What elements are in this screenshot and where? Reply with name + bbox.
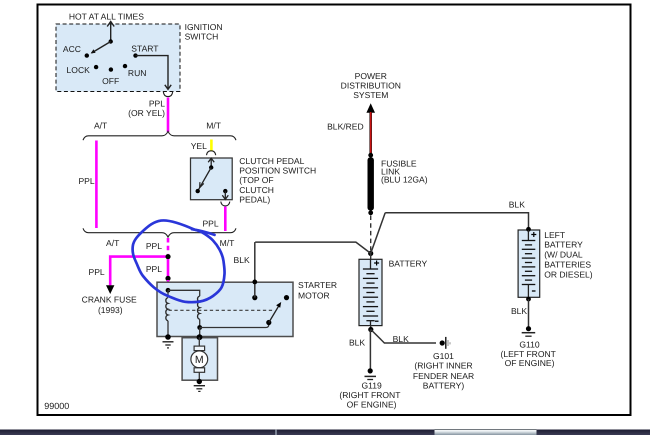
svg-text:CLUTCH: CLUTCH [239, 185, 274, 195]
svg-text:PEDAL): PEDAL) [239, 195, 270, 205]
wire PPL dashed below merge [167, 238, 170, 254]
ground G119 [368, 368, 373, 373]
svg-text:STARTER: STARTER [298, 280, 337, 290]
svg-text:OR DIESEL): OR DIESEL) [544, 269, 593, 279]
node coil2 bottom [197, 325, 202, 330]
connector arc ignition output [163, 92, 172, 97]
ground G101 chassis [440, 340, 445, 345]
left battery plates [522, 241, 536, 285]
svg-text:BATTERY): BATTERY) [423, 381, 465, 391]
svg-text:PPL: PPL [89, 267, 105, 277]
wire PPL crank fuse branch [110, 257, 165, 286]
svg-text:PPL: PPL [146, 264, 162, 274]
clutch pedal position switch U1 [191, 158, 233, 200]
svg-text:BATTERIES: BATTERIES [544, 259, 591, 269]
node battery positive junction [368, 251, 373, 256]
contact RUN [123, 64, 127, 68]
node left battery negative [526, 297, 531, 302]
dashed mechanical link [169, 309, 273, 311]
wire BLK junction to left battery [371, 213, 386, 254]
svg-text:(W/ DUAL: (W/ DUAL [544, 250, 583, 260]
node junction above starter [165, 276, 170, 281]
svg-text:SWITCH: SWITCH [185, 31, 219, 41]
svg-text:PPL: PPL [149, 98, 165, 108]
battery minus terminal [375, 320, 379, 322]
node motor feed [197, 334, 203, 340]
arrow to power distribution [366, 103, 375, 113]
wire BLK battery to G101 [371, 330, 436, 344]
svg-text:POWER: POWER [355, 71, 387, 81]
svg-text:PPL: PPL [78, 176, 94, 186]
wire BLK to G110 [528, 299, 530, 327]
svg-text:(BLU 12GA): (BLU 12GA) [381, 175, 428, 185]
node fusible link top [368, 153, 373, 158]
svg-text:G101: G101 [433, 351, 454, 361]
wire dashed to battery junction [370, 216, 372, 251]
node left battery positive [526, 227, 531, 232]
wire PPL to starter [167, 259, 170, 276]
svg-text:BATTERY: BATTERY [544, 240, 583, 250]
coil L2 pull-in winding [198, 296, 200, 319]
contact ACC [85, 53, 89, 57]
contact LOCK [94, 65, 98, 69]
clutch switch blade [198, 168, 212, 192]
brace split A/T M/T [83, 131, 236, 140]
svg-text:RUN: RUN [128, 68, 147, 78]
arrow to crank fuse [106, 285, 114, 294]
svg-text:PPL: PPL [202, 218, 218, 228]
svg-text:A/T: A/T [106, 238, 120, 248]
battery BT2 left battery [518, 230, 540, 297]
node PPL terminal inside starter [166, 288, 171, 293]
svg-text:POSITION SWITCH: POSITION SWITCH [239, 166, 316, 176]
wire PPL from ignition [167, 98, 170, 133]
battery plus terminal [374, 261, 379, 266]
brace merge A/T M/T [83, 228, 236, 237]
svg-text:ACC: ACC [63, 44, 81, 54]
node motor ground pin [197, 379, 202, 384]
wire BLK junction to starter [255, 242, 371, 253]
svg-text:M: M [195, 354, 204, 366]
svg-text:G119: G119 [361, 381, 382, 391]
ground motor [194, 385, 205, 387]
node clutch lower contact [196, 189, 200, 193]
wire link to both coils [168, 290, 200, 296]
svg-text:BLK/RED: BLK/RED [327, 121, 364, 131]
svg-text:FENDER NEAR: FENDER NEAR [413, 371, 474, 381]
svg-text:HOT AT ALL TIMES: HOT AT ALL TIMES [69, 11, 144, 21]
wire BLK battery to G119 [369, 330, 371, 370]
wire PPL into starter box [167, 280, 170, 283]
left battery plus terminal [531, 232, 536, 237]
ignition switch box [56, 24, 180, 92]
svg-text:(1993): (1993) [98, 305, 123, 315]
svg-text:(RIGHT INNER: (RIGHT INNER [414, 361, 472, 371]
fusible link F1 [368, 157, 374, 210]
node solenoid fixed contact [284, 295, 289, 300]
wire coil2 to contact [200, 323, 269, 328]
svg-text:LEFT: LEFT [544, 230, 566, 240]
motor housing box [182, 338, 217, 381]
ground G110 [526, 326, 531, 331]
bottom toolbar strip [0, 430, 650, 435]
node solenoid moving contact [266, 320, 271, 325]
svg-text:M/T: M/T [206, 120, 221, 130]
node clutch upper contact [209, 165, 213, 169]
wire YEL M/T branch [210, 140, 213, 151]
node starter coil1 ground pin [165, 334, 171, 340]
svg-text:START: START [131, 43, 159, 53]
connector arc clutch switch input [207, 151, 216, 155]
node clutch output contact [223, 189, 227, 193]
battery plates [363, 269, 378, 321]
solenoid switch arm [269, 306, 279, 323]
wire PPL from clutch switch [224, 207, 227, 231]
clutch switch output arrow [224, 191, 226, 199]
annotation blue scribble [192, 229, 215, 235]
contact OFF [109, 67, 113, 71]
left battery minus terminal [532, 290, 536, 292]
wire pivot to ACC with arrow [92, 42, 111, 54]
contact START [133, 53, 137, 57]
clutch switch input arrow [210, 159, 212, 168]
svg-text:IGNITION: IGNITION [185, 22, 223, 32]
svg-text:BLK: BLK [234, 255, 250, 265]
svg-text:BLK: BLK [509, 199, 525, 209]
svg-text:M/T: M/T [220, 238, 235, 248]
ground starter coil [163, 341, 174, 343]
svg-text:LOCK: LOCK [67, 65, 91, 75]
svg-text:BLK: BLK [349, 338, 365, 348]
battery BT1 [370, 253, 372, 259]
wire coil2 down to motor [199, 328, 201, 338]
svg-text:(OR YEL): (OR YEL) [128, 108, 165, 118]
coil L1 hold-in winding [167, 290, 169, 297]
wire ignition feed arrow up [110, 22, 112, 42]
motor M1 [198, 337, 200, 346]
node junction crank fuse tap [165, 254, 170, 259]
svg-text:99000: 99000 [44, 401, 69, 411]
svg-text:MOTOR: MOTOR [298, 291, 330, 301]
svg-text:CLUTCH PEDAL: CLUTCH PEDAL [239, 156, 304, 166]
svg-text:A/T: A/T [94, 120, 108, 130]
wire BLK into starter [254, 242, 256, 298]
svg-text:SYSTEM: SYSTEM [353, 90, 388, 100]
starter motor box [157, 282, 293, 336]
svg-text:BATTERY: BATTERY [389, 258, 428, 268]
node battery negative [370, 326, 372, 330]
node BLK on starter box edge [252, 280, 257, 285]
svg-text:BLK: BLK [511, 306, 527, 316]
wire PPL A/T branch [95, 141, 98, 229]
svg-text:YEL: YEL [191, 141, 207, 151]
wire BLK/RED [369, 112, 372, 155]
svg-text:PPL: PPL [146, 241, 162, 251]
svg-text:BLK: BLK [393, 334, 409, 344]
svg-text:OF ENGINE): OF ENGINE) [505, 358, 555, 368]
connector arc clutch switch output [221, 202, 230, 206]
svg-text:DISTRIBUTION: DISTRIBUTION [341, 81, 401, 91]
svg-text:CRANK FUSE: CRANK FUSE [82, 294, 137, 304]
wire START output [136, 56, 169, 89]
node fusible link bottom [368, 210, 373, 215]
svg-text:OF ENGINE): OF ENGINE) [347, 400, 397, 410]
svg-text:OFF: OFF [102, 76, 119, 86]
node BLK terminal in starter [252, 295, 257, 300]
svg-text:(TOP OF: (TOP OF [239, 175, 273, 185]
node ignition pivot [109, 39, 113, 43]
